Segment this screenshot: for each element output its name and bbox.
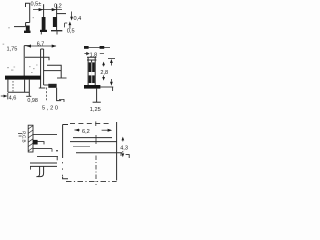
fig7 left bracket bbox=[63, 125, 68, 159]
fig1 lead foot bbox=[24, 31, 31, 33]
fig3 faint speckles bbox=[3, 17, 38, 73]
fig2 seating plane bar bbox=[51, 30, 62, 32]
fig4 dim 2,8 bbox=[103, 63, 105, 67]
fig7 center line vertical tick bbox=[95, 135, 97, 144]
fig3 lower box right edge bbox=[25, 80, 30, 97]
svg-text:0,4: 0,4 bbox=[74, 16, 82, 22]
fig3 right step bracket bbox=[47, 65, 61, 78]
fig3 lower box left bbox=[7, 80, 9, 93]
svg-text:1,75: 1,75 bbox=[7, 47, 18, 53]
fig4 label 1,8 with side arrows bbox=[84, 52, 89, 54]
fig3 dim 4,6 arrow bbox=[1, 95, 7, 97]
svg-text:6,7: 6,7 bbox=[37, 42, 45, 48]
fig7 dim 6,2 bbox=[74, 129, 80, 131]
fig2 terminal B lead (dark) bbox=[53, 17, 57, 27]
fig7 top dashed edge bbox=[70, 123, 112, 125]
fig3 mid horizontal line bbox=[44, 70, 61, 72]
fig2 terminal B vertical bbox=[56, 4, 58, 30]
fig4 base bar (dark) bbox=[84, 85, 100, 89]
fig2 terminal B upper bend bbox=[57, 13, 66, 15]
svg-text:0,5: 0,5 bbox=[67, 29, 75, 35]
fig2 terminal A lead (dark) bbox=[42, 17, 46, 30]
fig3 dim 6,7 line with arrows bbox=[27, 45, 56, 47]
svg-text:6,2: 6,2 bbox=[82, 129, 90, 135]
svg-text:0,98: 0,98 bbox=[27, 98, 38, 104]
fig5 bottom lead line bbox=[33, 148, 52, 150]
fig3 body left edge bbox=[23, 46, 25, 76]
fig5 pcb hatched strip bbox=[28, 125, 33, 152]
fig3 dashed center line lower bbox=[46, 88, 48, 102]
fig3 pcb thin extension right bbox=[57, 77, 67, 79]
fig6 upper line with tick bbox=[37, 157, 58, 161]
fig4 bottom stem bbox=[96, 89, 98, 103]
svg-text:1,25: 1,25 bbox=[90, 107, 101, 113]
fig3 body top edge bbox=[25, 57, 49, 60]
fig3 small bracket mark bbox=[59, 99, 64, 102]
fig3 lower pad (dark) bbox=[48, 84, 56, 88]
svg-text:2,8: 2,8 bbox=[100, 70, 108, 76]
fig7 small corner mark bbox=[126, 155, 130, 158]
fig3 plunger tip foot bbox=[39, 87, 46, 89]
fig2 dimension line with arrows bbox=[33, 9, 62, 11]
fig1 lower horizontal wire bbox=[14, 26, 25, 28]
fig7 bottom dash-dot line bbox=[66, 181, 117, 183]
fig4 top dim line 1,8 bbox=[84, 47, 110, 49]
svg-text:4,6: 4,6 bbox=[9, 95, 17, 101]
fig3 lower box inner dashed bbox=[12, 81, 14, 92]
fig4 body verticals bbox=[88, 57, 95, 85]
fig5 solder dark square bbox=[33, 140, 38, 145]
fig7 plan top line bbox=[76, 152, 122, 154]
fig3 lower box bottom bbox=[8, 91, 29, 93]
fig5 top lead line bbox=[33, 134, 57, 136]
fig6 hanging hook bbox=[36, 166, 39, 176]
svg-text:5,20: 5,20 bbox=[42, 106, 60, 112]
fig4 body top cap bbox=[87, 57, 96, 60]
svg-text:0,5±: 0,5± bbox=[31, 2, 42, 8]
svg-text:P.C.B: P.C.B bbox=[21, 131, 26, 142]
fig3 lower right leg bbox=[57, 88, 62, 101]
fig7 dim 4,3 bbox=[122, 137, 125, 141]
fig2 terminal A foot bbox=[40, 30, 47, 32]
fig1 terminal side profile: top hook bbox=[26, 3, 30, 7]
fig7 center dash-dot vertical bbox=[95, 156, 97, 186]
fig7 right edge bbox=[116, 122, 118, 180]
fig4 dark blocks bbox=[89, 62, 95, 72]
fig6 pcb edge double bar bbox=[30, 163, 57, 166]
fig2 terminal A vertical bbox=[43, 4, 45, 17]
fig1 lead body bbox=[26, 23, 30, 27]
svg-text:4,3: 4,3 bbox=[120, 146, 128, 152]
fig5 mid lead with hook bbox=[33, 142, 44, 145]
fig1 main vertical strip bbox=[29, 3, 31, 22]
fig4 right vertical dim bbox=[108, 58, 115, 60]
fig4 base line extension bbox=[100, 86, 113, 88]
fig3 plunger shaft bbox=[41, 49, 44, 88]
fig2 dim 0,5 up arrow bbox=[69, 23, 71, 29]
fig3 pcb bar (thick) bbox=[5, 76, 41, 80]
fig7 inner double lines bbox=[70, 138, 117, 142]
fig2 dim 0,4 down arrow bbox=[71, 12, 73, 19]
svg-text:0,2: 0,2 bbox=[54, 4, 62, 10]
